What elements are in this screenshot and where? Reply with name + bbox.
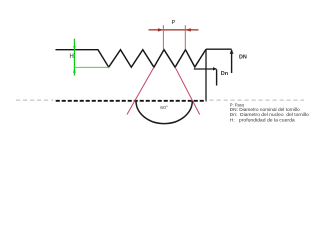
svg-text:DN: DN (239, 54, 247, 60)
60 degree angle arc (136, 101, 192, 124)
P dimension horizontal (red) (149, 29, 199, 31)
DN dimension vertical (231, 50, 233, 73)
axis centerline right (light dashed) (210, 99, 305, 101)
H dimension vertical (green) (73, 39, 75, 76)
Dn root extension horizontal (194, 68, 216, 70)
axis centerline middle (bold dashed) (56, 100, 207, 102)
thread profile (crest flat + zigzag) (56, 49, 207, 67)
Dn arrowhead (right) (213, 67, 217, 70)
svg-text:Dn: Dn (221, 71, 229, 77)
svg-text:60°: 60° (160, 105, 168, 111)
flank extension left (red) (127, 67, 154, 114)
svg-text:H: profundidad de la cuerda: H: profundidad de la cuerda (230, 118, 296, 123)
svg-text:P: P (172, 20, 176, 26)
svg-text:Dn: Diametro del nucleo del: Dn: Diametro del nucleo del tornillo (230, 112, 310, 117)
axis centerline left (light dashed) (16, 99, 54, 101)
flank extension right (red) (175, 67, 200, 114)
P extension vertical left (red) (162, 25, 164, 49)
H arrowhead down (green) (73, 46, 76, 49)
P arrowhead right-pointing (red) (158, 28, 164, 31)
P arrowhead left-pointing (red) (185, 28, 191, 31)
profile end vertical to axis (205, 49, 207, 100)
Dn dimension vertical (216, 69, 218, 85)
H arrowhead up (green) (73, 68, 76, 73)
H root horizontal (green) (75, 66, 110, 68)
svg-text:H: H (70, 54, 74, 60)
DN arrowhead (up) (230, 49, 234, 54)
DN crest extension horizontal (206, 48, 232, 50)
P extension vertical right (red) (184, 25, 186, 49)
